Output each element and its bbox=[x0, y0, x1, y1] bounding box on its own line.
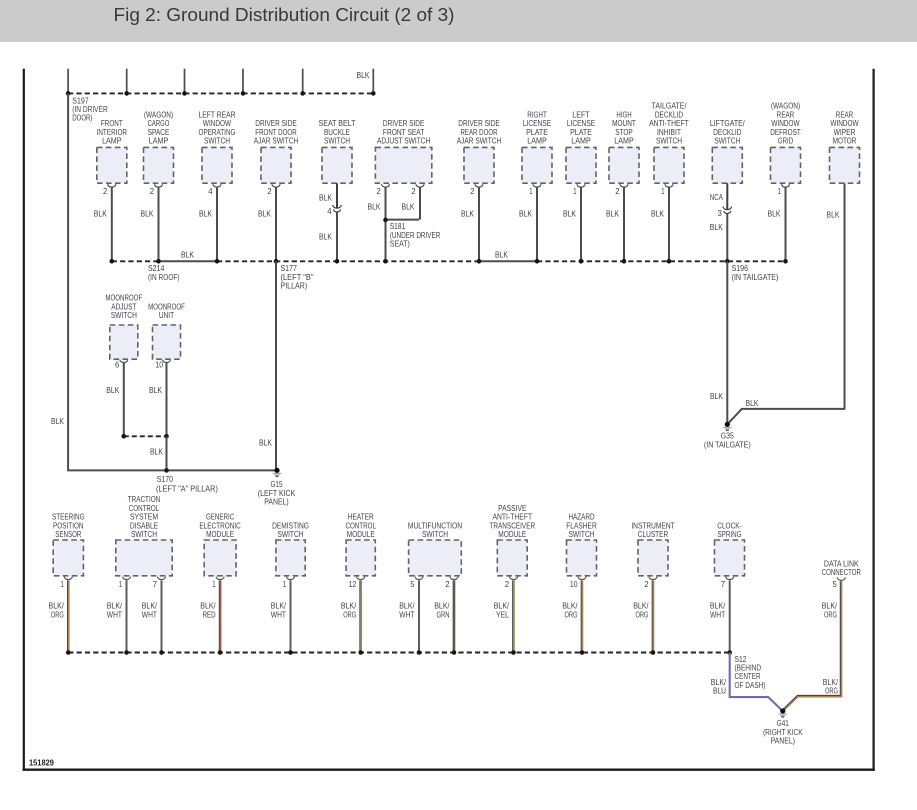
wire: S196 to G35 (BLK) bbox=[710, 261, 727, 422]
svg-text:PLATE: PLATE bbox=[526, 128, 548, 137]
component: heater control module bbox=[345, 513, 376, 580]
svg-text:6: 6 bbox=[115, 361, 120, 370]
svg-text:OF DASH): OF DASH) bbox=[735, 681, 766, 690]
svg-text:BLK: BLK bbox=[258, 210, 272, 219]
svg-text:OPERATING: OPERATING bbox=[199, 128, 236, 137]
svg-text:(WAGON): (WAGON) bbox=[144, 110, 174, 119]
svg-text:LAMP: LAMP bbox=[614, 137, 633, 146]
wire label BLK (S197 riser) bbox=[51, 417, 65, 426]
component: front interior lamp bbox=[97, 119, 128, 187]
svg-text:FRONT DOOR: FRONT DOOR bbox=[255, 128, 297, 137]
svg-text:BLK: BLK bbox=[181, 250, 195, 259]
svg-text:FLASHER: FLASHER bbox=[566, 521, 597, 530]
component: data link connector bbox=[822, 560, 861, 581]
svg-text:BLK: BLK bbox=[768, 210, 782, 219]
junction on bus 2 bbox=[110, 259, 115, 264]
component: rear window defrost grid bbox=[770, 102, 801, 187]
splice bus 2 (dashed) bbox=[112, 260, 786, 262]
pin 2 and wire BLK to bus bbox=[606, 187, 624, 261]
svg-text:BLU: BLU bbox=[713, 687, 726, 696]
svg-text:INTERIOR: INTERIOR bbox=[97, 128, 128, 137]
svg-text:2: 2 bbox=[267, 187, 272, 196]
component: driver side front seat adjust switch bbox=[375, 119, 431, 187]
splice bus 3 (dashed) bbox=[68, 652, 729, 654]
svg-text:WIPER: WIPER bbox=[834, 128, 856, 137]
component: instrument cluster bbox=[631, 521, 674, 579]
svg-text:WINDOW: WINDOW bbox=[203, 119, 232, 128]
junction on bus 3 bbox=[417, 650, 422, 655]
svg-text:S196: S196 bbox=[732, 264, 749, 273]
component: demisting switch bbox=[272, 521, 309, 579]
wire BLK: moonroof link down to S170 bbox=[150, 436, 167, 470]
svg-text:BLK: BLK bbox=[519, 210, 533, 219]
svg-text:(RIGHT KICK: (RIGHT KICK bbox=[763, 728, 803, 737]
svg-text:1: 1 bbox=[529, 187, 533, 196]
junction on bus 3 bbox=[66, 650, 71, 655]
junction on top bus at stub 4 bbox=[241, 91, 246, 96]
splice S214 label bbox=[148, 264, 180, 282]
svg-text:SWITCH: SWITCH bbox=[204, 137, 230, 146]
junction on bus 3 bbox=[288, 650, 293, 655]
svg-text:REAR DOOR: REAR DOOR bbox=[461, 128, 498, 137]
pin 2 and wire BLK to bus bbox=[141, 187, 159, 261]
junction on bus 3 bbox=[727, 650, 732, 655]
pin 2 and wire BLK to bus bbox=[461, 187, 479, 261]
wire: solid segment rear-door-ajar to right license lamp bbox=[479, 250, 537, 261]
svg-text:BLK: BLK bbox=[51, 417, 65, 426]
component: moonroof unit bbox=[148, 302, 185, 362]
svg-text:1: 1 bbox=[119, 580, 123, 589]
wire: off-page stub 6 bbox=[372, 69, 374, 94]
svg-text:5: 5 bbox=[410, 580, 415, 589]
svg-text:S214: S214 bbox=[148, 264, 165, 273]
splice S196 label bbox=[732, 264, 779, 282]
dashed splice link (moonroof) bbox=[122, 434, 169, 439]
svg-text:(LEFT KICK: (LEFT KICK bbox=[258, 489, 296, 498]
svg-text:S181: S181 bbox=[390, 222, 406, 231]
pin 1 and wire BLK to bus bbox=[651, 187, 669, 261]
pin 2 and wire BLK to bus bbox=[94, 187, 112, 261]
component: generic electronic module bbox=[199, 513, 241, 580]
ground G41 bbox=[763, 708, 803, 745]
svg-text:LAMP: LAMP bbox=[527, 137, 546, 146]
svg-text:1: 1 bbox=[573, 187, 577, 196]
svg-text:2: 2 bbox=[150, 187, 155, 196]
svg-text:MOONROOF: MOONROOF bbox=[148, 302, 185, 311]
svg-text:2: 2 bbox=[377, 187, 382, 196]
junction on bus 3 bbox=[651, 650, 656, 655]
wire: off-page stub 3 bbox=[184, 69, 186, 94]
junction on bus 3 bbox=[159, 650, 164, 655]
svg-text:4: 4 bbox=[327, 207, 332, 216]
svg-text:SEAT): SEAT) bbox=[390, 240, 410, 249]
wire: off-page stub 1 bbox=[67, 69, 69, 94]
svg-text:SYSTEM: SYSTEM bbox=[130, 513, 158, 522]
ground G35 bbox=[704, 422, 751, 450]
title bar bbox=[0, 0, 917, 42]
svg-text:SWITCH: SWITCH bbox=[422, 530, 448, 539]
wire label BLK (top stub) bbox=[357, 71, 371, 80]
junction on bus 2 bbox=[156, 259, 161, 264]
svg-text:BLK: BLK bbox=[319, 193, 333, 202]
svg-text:GENERIC: GENERIC bbox=[206, 513, 234, 522]
component: tailgate/decklid anti-theft inhibit switch bbox=[649, 102, 689, 187]
svg-text:ELECTRONIC: ELECTRONIC bbox=[199, 521, 241, 530]
svg-text:BUCKLE: BUCKLE bbox=[324, 128, 350, 137]
svg-text:WHT: WHT bbox=[107, 610, 122, 619]
svg-text:PASSIVE: PASSIVE bbox=[498, 504, 526, 513]
junction on bus 2 bbox=[783, 259, 788, 264]
ground G15 bbox=[258, 468, 296, 507]
component: right license plate lamp bbox=[522, 110, 552, 187]
svg-text:DEFROST: DEFROST bbox=[770, 128, 801, 137]
svg-text:G35: G35 bbox=[721, 432, 734, 441]
junction on top bus at stub 1 bbox=[66, 91, 71, 96]
component: moonroof adjust switch bbox=[105, 294, 142, 363]
component: left rear window operating switch bbox=[199, 110, 236, 187]
svg-text:YEL: YEL bbox=[496, 610, 509, 619]
svg-text:LAMP: LAMP bbox=[102, 137, 121, 146]
junction on top bus at stub 2 bbox=[124, 91, 129, 96]
junction on bus 2 bbox=[725, 259, 730, 264]
pin 10 and wire BLK/ORG to bus bbox=[562, 580, 582, 653]
svg-text:7: 7 bbox=[721, 580, 726, 589]
pin 1 and wire BLK/WHT to bus bbox=[271, 580, 291, 653]
svg-text:BLK/: BLK/ bbox=[823, 678, 839, 687]
svg-text:LIFTGATE/: LIFTGATE/ bbox=[710, 119, 746, 128]
svg-text:PLATE: PLATE bbox=[570, 128, 592, 137]
svg-text:10: 10 bbox=[155, 361, 163, 370]
wire NCA/3 with inline connector (liftgate switch) to S196 bbox=[710, 183, 732, 261]
svg-text:DECKLID: DECKLID bbox=[713, 128, 741, 137]
svg-text:REAR: REAR bbox=[836, 110, 854, 119]
svg-text:SWITCH: SWITCH bbox=[568, 530, 594, 539]
svg-text:LICENSE: LICENSE bbox=[523, 119, 551, 128]
component: high mount stop lamp bbox=[609, 110, 639, 187]
splice S12 label bbox=[735, 655, 766, 690]
svg-text:CARGO: CARGO bbox=[148, 119, 170, 128]
junction on top bus at stub 3 bbox=[182, 91, 187, 96]
svg-text:WHT: WHT bbox=[271, 610, 286, 619]
svg-text:BLK: BLK bbox=[606, 210, 620, 219]
component: cargo space lamp bbox=[144, 110, 174, 187]
junction on top bus at stub 5 bbox=[300, 91, 305, 96]
svg-text:FRONT SEAT: FRONT SEAT bbox=[383, 128, 424, 137]
svg-text:MOTOR: MOTOR bbox=[833, 137, 857, 146]
pin 1 and wire BLK to bus bbox=[563, 187, 581, 261]
pin 4 and wire BLK to bus bbox=[199, 187, 217, 261]
svg-text:SWITCH: SWITCH bbox=[714, 137, 740, 146]
svg-text:ORG: ORG bbox=[825, 687, 838, 696]
svg-text:CLOCK-: CLOCK- bbox=[717, 521, 742, 530]
svg-text:WHT: WHT bbox=[710, 610, 725, 619]
svg-text:HIGH: HIGH bbox=[616, 110, 631, 119]
junction on bus 2 bbox=[477, 259, 482, 264]
svg-text:MODULE: MODULE bbox=[498, 530, 526, 539]
component: hazard flasher switch bbox=[566, 513, 597, 580]
svg-text:12: 12 bbox=[349, 580, 357, 589]
pin 2 and wire BLK to bus bbox=[258, 187, 276, 261]
pin 2 and wire BLK/YEL to bus bbox=[494, 580, 514, 653]
svg-text:(IN TAILGATE): (IN TAILGATE) bbox=[704, 441, 751, 450]
pin 1 and wire BLK/RED to bus bbox=[200, 580, 220, 653]
component: liftgate/decklid switch bbox=[710, 119, 746, 183]
pin 1 and wire BLK/WHT to bus bbox=[107, 580, 127, 653]
component: driver side front door ajar switch bbox=[254, 119, 299, 187]
svg-text:RIGHT: RIGHT bbox=[527, 110, 547, 119]
svg-text:1: 1 bbox=[61, 580, 65, 589]
pin 1 and wire BLK/ORG to bus bbox=[49, 580, 69, 653]
svg-text:DECKLID: DECKLID bbox=[655, 110, 683, 119]
svg-text:1: 1 bbox=[283, 580, 287, 589]
wire: S197 to S170/G15 (BLK) bbox=[67, 93, 277, 470]
junction on bus 3 bbox=[452, 650, 457, 655]
svg-text:G41: G41 bbox=[777, 719, 789, 728]
svg-text:PANEL): PANEL) bbox=[771, 737, 796, 746]
wire: off-page stub 5 bbox=[302, 69, 304, 94]
svg-text:ADJUST SWITCH: ADJUST SWITCH bbox=[377, 137, 430, 146]
svg-text:4: 4 bbox=[208, 187, 213, 196]
svg-text:SPRING: SPRING bbox=[718, 530, 742, 539]
pin 12 and wire BLK/ORG to bus bbox=[341, 580, 361, 653]
svg-text:WINDOW: WINDOW bbox=[830, 119, 859, 128]
pin 10 and wire BLK (moonroof unit) bbox=[149, 361, 167, 437]
svg-text:ORG: ORG bbox=[636, 610, 649, 619]
svg-text:BLK: BLK bbox=[141, 210, 155, 219]
svg-text:Fig 2: Ground Distribution Cir: Fig 2: Ground Distribution Circuit (2 of… bbox=[114, 4, 455, 25]
svg-text:BLK: BLK bbox=[357, 71, 371, 80]
svg-text:(UNDER DRIVER: (UNDER DRIVER bbox=[390, 231, 441, 240]
svg-text:CONTROL: CONTROL bbox=[129, 504, 160, 513]
svg-text:GRN: GRN bbox=[437, 610, 450, 619]
splice S170 bbox=[156, 468, 218, 494]
svg-text:LICENSE: LICENSE bbox=[567, 119, 595, 128]
svg-text:LAMP: LAMP bbox=[149, 137, 168, 146]
svg-text:STEERING: STEERING bbox=[52, 513, 85, 522]
svg-text:DRIVER SIDE: DRIVER SIDE bbox=[255, 119, 296, 128]
svg-text:WHT: WHT bbox=[399, 610, 414, 619]
svg-text:NCA: NCA bbox=[710, 193, 724, 202]
wire labels BLK/ORG near G41 bbox=[823, 678, 839, 696]
figure number 151829 bbox=[29, 757, 54, 767]
splice S197 label bbox=[72, 96, 108, 122]
svg-text:INSTRUMENT: INSTRUMENT bbox=[631, 521, 674, 530]
svg-text:PILLAR): PILLAR) bbox=[281, 282, 308, 291]
svg-text:DRIVER SIDE: DRIVER SIDE bbox=[383, 119, 424, 128]
svg-text:S12: S12 bbox=[735, 655, 747, 664]
svg-text:151829: 151829 bbox=[29, 757, 54, 767]
svg-text:1: 1 bbox=[778, 187, 782, 196]
svg-text:7: 7 bbox=[153, 580, 158, 589]
junction on bus 3 bbox=[358, 650, 363, 655]
svg-text:RED: RED bbox=[203, 610, 216, 619]
wire BLK with inline connector (seat belt buckle switch) bbox=[319, 183, 341, 261]
svg-text:(BEHIND: (BEHIND bbox=[735, 664, 762, 673]
pin 2 and wire BLK/GRN to bus bbox=[434, 580, 454, 653]
component: driver side rear door ajar switch bbox=[457, 119, 502, 187]
svg-text:REAR: REAR bbox=[777, 110, 795, 119]
svg-text:SENSOR: SENSOR bbox=[55, 530, 81, 539]
svg-text:2: 2 bbox=[445, 580, 450, 589]
svg-text:CONNECTOR: CONNECTOR bbox=[822, 568, 861, 577]
component: seat belt buckle switch bbox=[319, 119, 356, 183]
junction on bus 2 bbox=[622, 259, 627, 264]
svg-text:(IN ROOF): (IN ROOF) bbox=[148, 273, 180, 282]
splice S177 label bbox=[281, 264, 314, 290]
svg-text:ORG: ORG bbox=[343, 610, 356, 619]
svg-text:BLK: BLK bbox=[827, 210, 841, 219]
svg-text:SWITCH: SWITCH bbox=[656, 137, 682, 146]
component: clockspring bbox=[715, 521, 745, 579]
svg-text:ORG: ORG bbox=[565, 610, 578, 619]
svg-text:SWITCH: SWITCH bbox=[131, 530, 157, 539]
svg-text:BLK: BLK bbox=[710, 392, 724, 401]
svg-text:5: 5 bbox=[833, 580, 838, 589]
svg-text:ANTI-THEFT: ANTI-THEFT bbox=[649, 119, 689, 128]
svg-text:LEFT REAR: LEFT REAR bbox=[199, 110, 236, 119]
svg-text:MULTIFUNCTION: MULTIFUNCTION bbox=[408, 521, 462, 530]
junction on bus 2 bbox=[215, 259, 220, 264]
svg-text:HEATER: HEATER bbox=[348, 513, 374, 522]
junction on bus 2 bbox=[383, 259, 388, 264]
svg-text:2: 2 bbox=[505, 580, 510, 589]
svg-text:LAMP: LAMP bbox=[571, 137, 590, 146]
svg-text:1: 1 bbox=[212, 580, 216, 589]
junction on bus 2 bbox=[335, 259, 340, 264]
svg-text:MOUNT: MOUNT bbox=[612, 119, 636, 128]
svg-text:INHIBIT: INHIBIT bbox=[657, 128, 681, 137]
component: multifunction switch bbox=[408, 521, 462, 579]
svg-text:BLK: BLK bbox=[149, 386, 163, 395]
svg-text:AJAR SWITCH: AJAR SWITCH bbox=[254, 137, 299, 146]
svg-text:(LEFT "A" PILLAR): (LEFT "A" PILLAR) bbox=[156, 485, 218, 494]
svg-text:DRIVER SIDE: DRIVER SIDE bbox=[458, 119, 499, 128]
pin 2 and wire BLK/ORG to bus bbox=[633, 580, 653, 653]
svg-text:POSITION: POSITION bbox=[53, 521, 84, 530]
svg-text:BLK: BLK bbox=[368, 202, 382, 211]
svg-text:ORG: ORG bbox=[824, 610, 837, 619]
pins 2,2 and wires BLK to splice S181 bbox=[368, 187, 421, 261]
component: steering position sensor bbox=[52, 513, 85, 580]
component: traction control system disable switch bbox=[116, 495, 172, 579]
junction on bus 3 bbox=[511, 650, 516, 655]
pin 5 and wire BLK/WHT to bus bbox=[399, 580, 419, 653]
svg-text:UNIT: UNIT bbox=[159, 311, 174, 320]
svg-text:BLK: BLK bbox=[563, 210, 577, 219]
svg-text:DISABLE: DISABLE bbox=[130, 521, 158, 530]
svg-text:STOP: STOP bbox=[615, 128, 632, 137]
svg-text:MODULE: MODULE bbox=[347, 530, 375, 539]
junction on bus 2 bbox=[274, 259, 279, 264]
svg-text:(IN TAILGATE): (IN TAILGATE) bbox=[732, 273, 779, 282]
junction on top bus at stub 6 bbox=[371, 91, 376, 96]
wire BLK: wiper motor to G35 bbox=[729, 183, 845, 422]
wire: S177 to G15 (BLK) bbox=[259, 261, 276, 470]
svg-text:S197: S197 bbox=[72, 96, 89, 105]
svg-text:CENTER: CENTER bbox=[735, 672, 761, 681]
junction on bus 3 bbox=[124, 650, 129, 655]
svg-text:2: 2 bbox=[411, 187, 416, 196]
component: rear window wiper motor bbox=[830, 110, 860, 183]
svg-text:S177: S177 bbox=[281, 264, 298, 273]
svg-text:TRANSCEIVER: TRANSCEIVER bbox=[489, 521, 535, 530]
wire BLK/BLU: S12 to G41 bbox=[711, 653, 782, 711]
svg-text:BLK: BLK bbox=[199, 210, 213, 219]
pin 5 and wire BLK/ORG (data link connector) to G41 bbox=[783, 580, 841, 710]
svg-text:BLK: BLK bbox=[746, 399, 760, 408]
svg-text:1: 1 bbox=[661, 187, 665, 196]
svg-text:SWITCH: SWITCH bbox=[111, 311, 137, 320]
svg-text:HAZARD: HAZARD bbox=[568, 513, 594, 522]
svg-text:WINDOW: WINDOW bbox=[771, 119, 800, 128]
svg-text:ANTI-THEFT: ANTI-THEFT bbox=[492, 513, 532, 522]
svg-text:AJAR SWITCH: AJAR SWITCH bbox=[457, 137, 502, 146]
svg-text:(IN DRIVER: (IN DRIVER bbox=[72, 105, 108, 114]
svg-text:LEFT: LEFT bbox=[572, 110, 589, 119]
svg-text:BLK: BLK bbox=[150, 448, 164, 457]
pin 1 and wire BLK to bus bbox=[768, 187, 786, 261]
svg-text:BLK: BLK bbox=[106, 386, 120, 395]
svg-text:GRID: GRID bbox=[778, 137, 793, 146]
pin 7 and wire BLK/WHT to bus bbox=[142, 580, 162, 653]
svg-text:BLK: BLK bbox=[651, 210, 665, 219]
svg-text:2: 2 bbox=[644, 580, 649, 589]
svg-text:WHT: WHT bbox=[142, 610, 157, 619]
svg-text:DOOR): DOOR) bbox=[72, 114, 92, 123]
splice S181 bbox=[383, 218, 440, 249]
svg-text:3: 3 bbox=[718, 209, 723, 218]
wire: off-page stub 4 bbox=[242, 69, 244, 94]
svg-text:BLK: BLK bbox=[319, 233, 333, 242]
svg-text:CONTROL: CONTROL bbox=[345, 521, 376, 530]
svg-text:2: 2 bbox=[615, 187, 620, 196]
svg-text:BLK: BLK bbox=[94, 210, 108, 219]
top splice bus (dashed) bbox=[68, 92, 373, 94]
svg-text:SEAT BELT: SEAT BELT bbox=[319, 119, 356, 128]
component: passive anti-theft transceiver module bbox=[489, 504, 535, 580]
svg-text:(WAGON): (WAGON) bbox=[771, 102, 801, 111]
svg-text:ADJUST: ADJUST bbox=[111, 302, 136, 311]
svg-text:DEMISTING: DEMISTING bbox=[272, 521, 309, 530]
svg-text:2: 2 bbox=[103, 187, 108, 196]
svg-text:BLK: BLK bbox=[710, 223, 724, 232]
svg-text:FRONT: FRONT bbox=[101, 119, 123, 128]
svg-text:TAILGATE/: TAILGATE/ bbox=[652, 102, 688, 111]
svg-text:BLK: BLK bbox=[402, 202, 416, 211]
svg-text:MODULE: MODULE bbox=[206, 530, 234, 539]
junction on bus 2 bbox=[667, 259, 672, 264]
svg-text:2: 2 bbox=[470, 187, 475, 196]
svg-text:SWITCH: SWITCH bbox=[277, 530, 303, 539]
svg-text:PANEL): PANEL) bbox=[264, 498, 289, 507]
svg-text:BLK: BLK bbox=[259, 438, 273, 447]
svg-text:BLK/: BLK/ bbox=[711, 678, 727, 687]
svg-text:TRACTION: TRACTION bbox=[128, 495, 161, 504]
svg-text:SWITCH: SWITCH bbox=[324, 137, 350, 146]
junction on bus 3 bbox=[218, 650, 223, 655]
svg-text:G15: G15 bbox=[271, 480, 283, 489]
svg-text:(LEFT "B": (LEFT "B" bbox=[281, 273, 314, 282]
wire: off-page stub 2 bbox=[126, 69, 128, 94]
svg-text:BLK: BLK bbox=[461, 210, 475, 219]
svg-text:SPACE: SPACE bbox=[148, 128, 170, 137]
junction on bus 3 bbox=[580, 650, 585, 655]
svg-text:CLUSTER: CLUSTER bbox=[638, 530, 669, 539]
pin 7 and wire BLK/WHT to bus bbox=[710, 580, 730, 653]
svg-text:10: 10 bbox=[570, 580, 578, 589]
junction on bus 2 bbox=[535, 259, 540, 264]
pin 1 and wire BLK to bus bbox=[519, 187, 537, 261]
